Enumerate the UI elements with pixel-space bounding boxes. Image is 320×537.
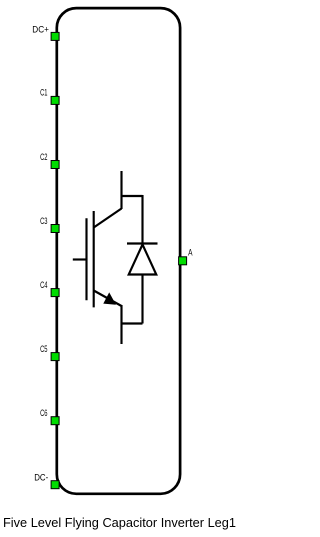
diode D1 triangle <box>129 245 157 275</box>
port DC- square <box>51 481 59 489</box>
diode D1 bottom lead wire <box>141 275 143 324</box>
svg-text:A: A <box>188 248 192 258</box>
IGBT Q1 gate bar <box>85 218 87 300</box>
port C5 square <box>51 353 59 361</box>
port C3 square <box>51 225 59 233</box>
svg-text:C1: C1 <box>40 88 47 98</box>
port A square <box>179 257 187 265</box>
IGBT Q1 emitter arrowhead <box>103 292 116 304</box>
IGBT Q1 collector lead wire <box>120 171 122 209</box>
svg-text:C6: C6 <box>40 408 47 418</box>
IGBT Q1 body bar <box>93 211 95 307</box>
IGBT Q1 collector diagonal <box>94 209 122 228</box>
svg-text:C2: C2 <box>40 152 47 162</box>
svg-text:C4: C4 <box>40 280 47 290</box>
svg-text:DC-: DC- <box>34 472 48 482</box>
diode D1 top lead wire <box>141 195 143 244</box>
block body: Five Level Flying Capacitor Inverter Leg1 <box>57 8 180 494</box>
IGBT Q1 gate lead wire <box>73 258 88 260</box>
port C2 square <box>51 161 59 169</box>
port C4 square <box>51 289 59 297</box>
port C1 square <box>51 96 59 104</box>
port C6 square <box>51 417 59 425</box>
svg-text:C5: C5 <box>40 344 47 354</box>
wire collector to diode top <box>122 195 143 197</box>
diode D1 cathode bar <box>127 242 158 244</box>
IGBT Q1 emitter diagonal <box>94 291 122 307</box>
wire diode bottom to emitter <box>122 322 143 324</box>
IGBT Q1 emitter lead wire <box>120 305 122 344</box>
port DC+ square <box>51 32 59 40</box>
svg-text:Five Level Flying Capacitor In: Five Level Flying Capacitor Inverter Leg… <box>3 516 236 530</box>
svg-text:DC+: DC+ <box>32 25 49 35</box>
svg-text:C3: C3 <box>40 216 47 226</box>
